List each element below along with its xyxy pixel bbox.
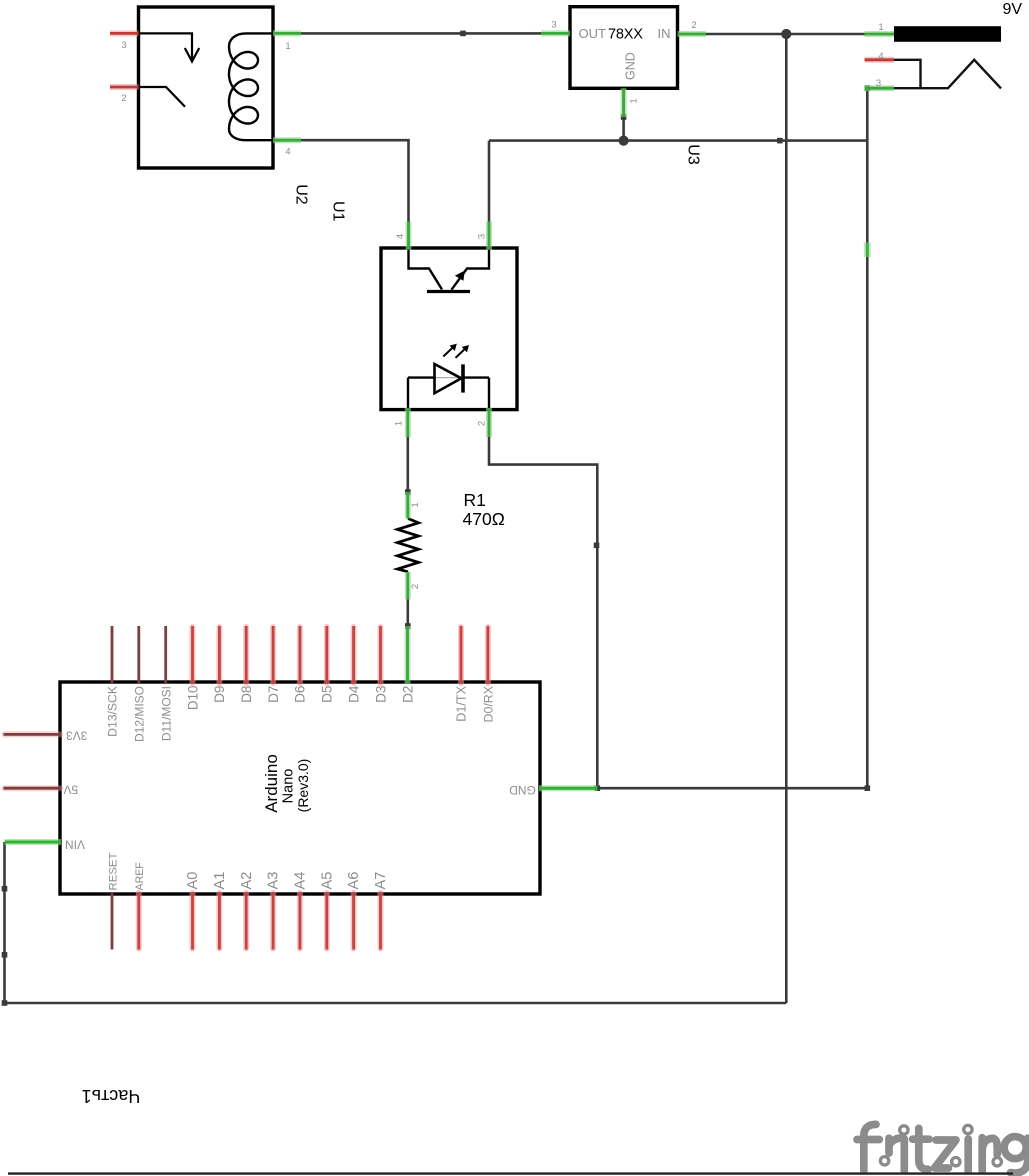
fritzing watermark logo: [857, 1124, 1028, 1173]
relay U2 actuator arrow: [139, 33, 193, 60]
svg-text:A2: A2: [239, 872, 255, 890]
svg-text:(Rev3.0): (Rev3.0): [295, 759, 311, 813]
svg-text:470Ω: 470Ω: [463, 509, 505, 529]
svg-text:4: 4: [285, 147, 290, 158]
regulator U3 pin 1 GND: [621, 88, 627, 117]
arduino green pin VIN left: [5, 839, 62, 845]
svg-text:A4: A4: [293, 872, 309, 890]
wire joint square on opto2-GND vertical: [594, 543, 600, 549]
battery pin 1: [865, 31, 895, 37]
svg-text:78XX: 78XX: [608, 27, 643, 43]
opto U1 pin 1: [405, 408, 411, 437]
svg-text:D4: D4: [346, 685, 361, 703]
arduino maroon pin RESET bottom: [111, 892, 114, 950]
opto U1 pin digits: [393, 234, 487, 426]
wire joint square left vertical a: [2, 886, 8, 892]
svg-text:D3: D3: [373, 686, 388, 703]
svg-text:3: 3: [551, 20, 556, 31]
svg-text:D0/RX: D0/RX: [482, 686, 496, 723]
wire joint square on 5V run: [460, 31, 466, 37]
svg-text:A3: A3: [266, 872, 282, 890]
svg-text:VIN: VIN: [65, 838, 85, 852]
svg-text:3: 3: [876, 78, 881, 89]
arduino maroon pins top D13 D12 D11: [112, 626, 166, 684]
fritzing logo g bowl: [1004, 1137, 1026, 1159]
wire joint square above R1: [405, 489, 411, 495]
arduino red pins top D10-D3 D1 D0: [193, 626, 488, 684]
relay U2 coil: [229, 33, 273, 140]
arduino center label: [262, 754, 311, 813]
svg-text:D9: D9: [212, 686, 227, 703]
opto U1 phototransistor: [409, 249, 443, 290]
svg-text:2: 2: [410, 584, 421, 589]
svg-text:1: 1: [878, 22, 883, 33]
voltage regulator U3 78XX: [541, 7, 706, 117]
relay U2 pin 3: [110, 30, 139, 36]
svg-text:D2: D2: [400, 686, 415, 703]
resistor R1 pin 1: [405, 492, 411, 519]
relay U2 pin digits: [121, 40, 290, 158]
svg-text:A0: A0: [185, 872, 201, 890]
arduino body: [60, 682, 540, 894]
svg-text:GND: GND: [623, 52, 637, 80]
svg-text:D7: D7: [266, 686, 281, 703]
resistor R1 470 ohm: [398, 492, 419, 600]
wire joint square above D2 pin: [405, 623, 411, 629]
svg-text:1: 1: [629, 98, 640, 103]
svg-text:1: 1: [285, 41, 290, 52]
svg-text:Часть1: Часть1: [82, 1086, 141, 1106]
svg-text:U1: U1: [330, 201, 347, 222]
svg-text:2: 2: [691, 20, 696, 31]
svg-text:IN: IN: [658, 26, 671, 41]
svg-text:1: 1: [393, 421, 404, 426]
wire joint square at battery pin3: [865, 85, 871, 91]
svg-text:RESET: RESET: [107, 852, 119, 890]
arduino red pins bottom AREF A0-A7: [139, 892, 381, 950]
svg-text:A7: A7: [373, 872, 389, 890]
wire 9V vertical from junction down right side: [785, 34, 788, 1003]
svg-text:2: 2: [121, 93, 126, 104]
wire GND vertical right side battery pin3 down: [866, 88, 869, 788]
svg-text:GND: GND: [509, 783, 536, 797]
wire GND horizontal upper run: [489, 139, 867, 142]
svg-text:3V3: 3V3: [66, 728, 88, 742]
battery clip wire: [894, 60, 1001, 89]
wire relay pin4 to opto pin4: [301, 140, 409, 221]
arduino top pin labels: [106, 685, 496, 742]
junction dot GND net below regulator: [619, 136, 629, 146]
svg-text:D6: D6: [293, 686, 308, 703]
svg-text:4: 4: [878, 51, 883, 62]
battery body bar: [894, 26, 1001, 42]
optocoupler U1: [381, 222, 517, 438]
svg-text:5V: 5V: [63, 782, 78, 796]
battery pin 4: [865, 57, 895, 63]
svg-text:A5: A5: [319, 872, 335, 890]
svg-text:D10: D10: [185, 686, 200, 711]
arduino green pin D2: [405, 626, 411, 684]
svg-text:D1/TX: D1/TX: [455, 685, 469, 721]
arduino green pin GND right: [539, 785, 597, 791]
svg-text:OUT: OUT: [579, 26, 607, 41]
regulator U3 pin 3 OUT: [541, 30, 570, 36]
wire joint square left vertical b: [2, 952, 8, 958]
WIRES-START: [5, 33, 868, 1003]
wire GND horizontal to arduino GND pin: [597, 787, 867, 790]
opto U1 LED: [408, 376, 489, 378]
wire regulator GND pin down to junction: [622, 117, 625, 141]
svg-text:4: 4: [395, 234, 406, 239]
arduino bottom pin labels: [107, 852, 389, 890]
wire left vertical up to VIN: [3, 842, 6, 1003]
relay U2 body: [139, 7, 274, 168]
svg-text:D5: D5: [320, 686, 335, 703]
svg-text:A6: A6: [346, 872, 362, 890]
arduino side pin labels: [63, 728, 535, 851]
svg-text:Arduino: Arduino: [262, 754, 281, 813]
svg-text:A1: A1: [212, 872, 228, 890]
svg-text:1: 1: [410, 502, 421, 507]
wire joint square bottom left corner: [2, 1000, 8, 1006]
relay U2: [110, 7, 301, 168]
opto U1 body: [381, 248, 517, 410]
relay U2 pin 2: [110, 84, 139, 90]
regulator U3 pin 2 IN: [678, 31, 707, 37]
battery pin digits: [876, 22, 884, 89]
relay U2 pin 4: [273, 137, 301, 143]
wire joint square on GND upper run: [777, 138, 783, 144]
svg-text:D13/SCK: D13/SCK: [106, 686, 120, 737]
relay U2 switch contact: [139, 87, 186, 107]
battery pin 3: [865, 85, 895, 91]
svg-text:3: 3: [121, 40, 126, 51]
wire regulator IN to battery pin1 (9V net): [706, 33, 865, 36]
svg-text:D11/MOSI: D11/MOSI: [159, 686, 173, 741]
bottom border line: [8, 1172, 1013, 1174]
opto U1 LED emission arrows: [443, 347, 453, 357]
svg-text:R1: R1: [464, 490, 486, 510]
resistor R1 pin 2: [405, 572, 411, 600]
svg-text:AREF: AREF: [134, 862, 146, 891]
opto U1 pin 3: [486, 222, 492, 250]
wire opto pin2 down-right-down to GND pin: [489, 437, 597, 788]
wire bottom 9V run to left side: [5, 1002, 787, 1005]
wire joint square at GND pin corner: [595, 785, 601, 791]
wire relay pin1 to regulator OUT (5V net): [301, 32, 541, 35]
wire joint square below regulator GND stub: [621, 114, 627, 120]
9V battery BT1: [865, 26, 1002, 88]
svg-text:U2: U2: [293, 184, 310, 205]
svg-text:U3: U3: [685, 144, 702, 165]
svg-text:9V: 9V: [1003, 1, 1023, 18]
wire joint square at GND right corner: [865, 785, 871, 791]
svg-text:3: 3: [476, 234, 487, 239]
resistor R1 zigzag: [398, 519, 419, 572]
regulator U3 body: [570, 7, 678, 89]
opto U1 pin 4: [406, 222, 412, 250]
junction dot 9V net at regulator IN: [781, 29, 791, 39]
wire resistor R1 to arduino D2: [406, 600, 409, 627]
opto U1 pin 2: [486, 408, 492, 437]
svg-text:2: 2: [476, 421, 487, 426]
wire opto pin3 up to GND run: [488, 141, 491, 222]
svg-text:D8: D8: [239, 686, 254, 703]
green joint marker on GND vertical: [864, 243, 871, 258]
wire opto pin1 down to resistor R1: [406, 437, 409, 492]
svg-text:D12/MISO: D12/MISO: [132, 686, 146, 742]
arduino maroon pins left 3V3 5V: [4, 734, 62, 788]
relay U2 pin 1: [273, 30, 301, 36]
arduino nano U4: [4, 626, 598, 950]
